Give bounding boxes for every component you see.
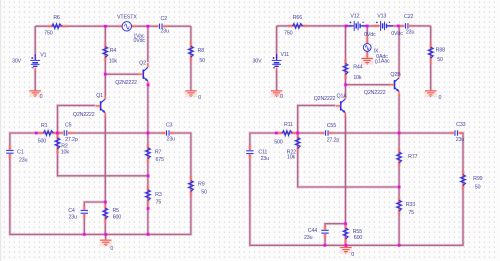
svg-text:R55: R55 [353,229,362,235]
svg-text:Q2N2222: Q2N2222 [73,112,95,118]
svg-text:R4: R4 [110,48,117,54]
svg-text:C55: C55 [327,123,336,129]
svg-text:Q2N2222: Q2N2222 [364,90,386,96]
svg-text:C22: C22 [404,14,413,20]
svg-text:0: 0 [198,95,201,101]
svg-text:V12: V12 [350,14,359,20]
svg-text:750: 750 [44,30,53,36]
svg-text:Q2B: Q2B [390,72,401,78]
svg-text:Q2N2222: Q2N2222 [115,80,137,86]
svg-text:V11: V11 [281,52,290,58]
svg-text:1Aac: 1Aac [378,59,390,65]
svg-text:V1: V1 [40,52,46,58]
svg-text:10k: 10k [109,58,118,64]
svg-text:30V: 30V [253,59,263,65]
svg-text:50: 50 [437,57,443,63]
svg-text:R88: R88 [436,47,445,53]
svg-text:23u: 23u [19,158,28,164]
svg-text:R33: R33 [406,202,415,208]
svg-text:10k: 10k [353,75,362,81]
svg-text:R3: R3 [155,192,162,198]
svg-text:750: 750 [284,30,293,36]
svg-text:R8: R8 [198,48,205,54]
svg-text:23u: 23u [304,235,313,241]
svg-text:C5: C5 [65,123,72,129]
svg-text:C4: C4 [68,208,75,214]
svg-text:0Vdc: 0Vdc [364,32,376,38]
svg-text:0: 0 [375,59,378,65]
svg-text:C11: C11 [258,149,267,155]
svg-text:23u: 23u [160,29,169,35]
svg-text:50: 50 [475,185,481,191]
svg-text:23u: 23u [69,215,78,221]
svg-text:R99: R99 [473,176,482,182]
svg-text:500: 500 [38,139,47,145]
svg-text:R11: R11 [284,122,293,128]
svg-text:R2: R2 [61,144,68,150]
svg-text:23u: 23u [456,137,465,143]
svg-text:675: 675 [156,157,165,163]
svg-text:R9: R9 [198,182,205,188]
svg-text:Q2: Q2 [139,61,146,67]
svg-text:R44: R44 [353,64,362,70]
svg-text:0: 0 [280,94,283,100]
svg-text:600: 600 [113,215,122,221]
svg-text:Q1: Q1 [96,93,103,99]
svg-text:R5: R5 [112,208,119,214]
svg-text:10k: 10k [287,155,296,161]
svg-text:R6: R6 [53,15,60,21]
svg-text:C3: C3 [166,123,173,129]
svg-text:0Vdc: 0Vdc [391,31,403,37]
svg-text:23u: 23u [261,156,270,162]
svg-text:75: 75 [408,210,414,216]
svg-text:27.2p: 27.2p [65,137,78,143]
svg-text:C44: C44 [308,228,317,234]
svg-text:10k: 10k [61,150,70,156]
svg-text:Q2N2222: Q2N2222 [314,96,336,102]
svg-text:75: 75 [156,200,162,206]
svg-text:0: 0 [110,246,113,252]
svg-text:30V: 30V [12,58,22,64]
svg-text:C1: C1 [17,149,24,155]
svg-text:0: 0 [439,95,442,101]
svg-text:R7: R7 [155,150,162,156]
svg-text:0Vdc: 0Vdc [133,38,145,44]
svg-text:R1: R1 [41,123,48,129]
svg-text:C33: C33 [456,122,465,128]
svg-text:V13: V13 [377,14,386,20]
svg-text:50: 50 [201,190,207,196]
svg-text:0: 0 [40,94,43,100]
svg-text:R66: R66 [293,15,302,21]
svg-text:VTESTX: VTESTX [117,14,137,20]
svg-text:500: 500 [274,139,283,145]
svg-text:600: 600 [354,235,363,241]
svg-text:0: 0 [351,252,354,258]
svg-text:23u: 23u [167,137,176,143]
svg-text:C2: C2 [161,16,168,22]
svg-text:50: 50 [199,58,205,64]
svg-text:Q1A: Q1A [337,94,348,100]
svg-text:R77: R77 [408,154,417,160]
svg-text:23u: 23u [406,30,415,36]
svg-text:27.2p: 27.2p [327,137,340,143]
